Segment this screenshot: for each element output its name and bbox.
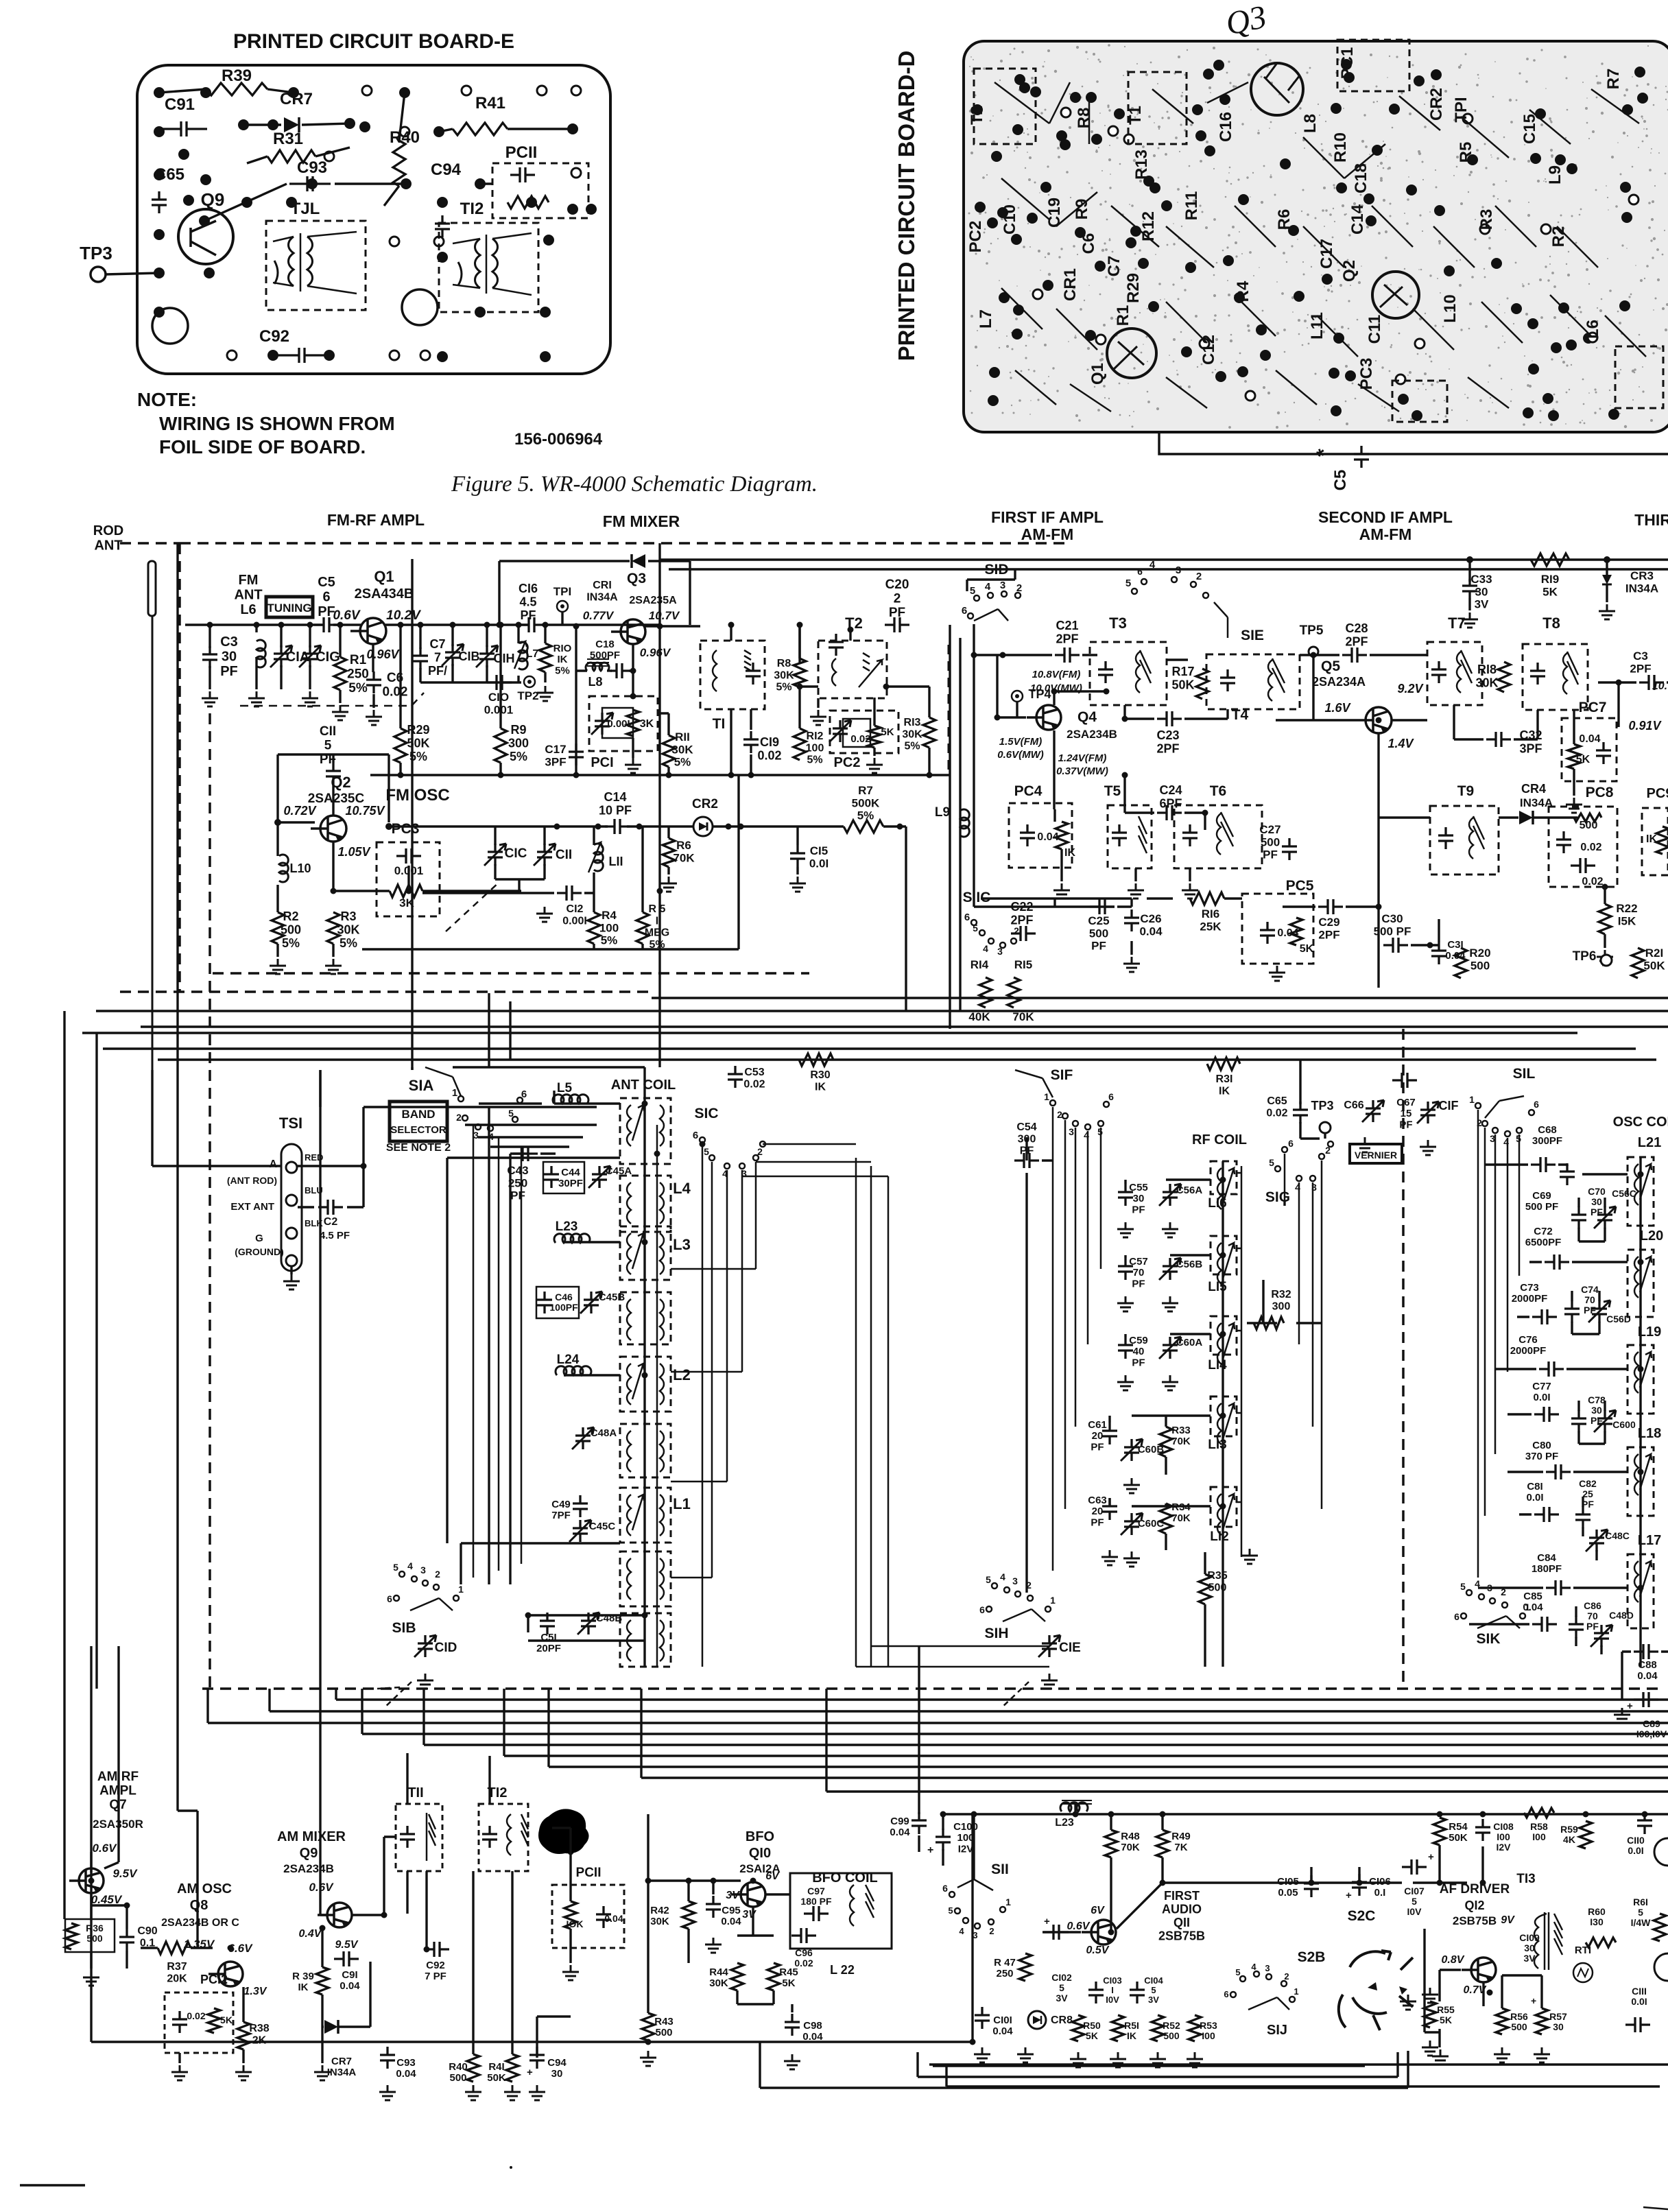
module PC7	[1562, 718, 1617, 781]
svg-text:0.6V: 0.6V	[309, 1881, 335, 1894]
T1 coils	[713, 650, 751, 691]
svg-text:RIOIK5%: RIOIK5%	[553, 643, 572, 676]
pad hole	[1200, 339, 1209, 348]
resistor R6	[663, 838, 675, 867]
svg-text:2: 2	[1014, 925, 1019, 936]
ground	[302, 691, 318, 706]
svg-text:L21: L21	[1638, 1135, 1661, 1150]
TP6 terminal	[1601, 955, 1612, 966]
C46 box	[536, 1287, 579, 1318]
svg-text:1: 1	[1525, 1602, 1530, 1613]
wire	[1468, 560, 1470, 610]
coil L3 upper arrow	[632, 1233, 644, 1269]
cap in PC3	[396, 848, 421, 864]
L11 arrow	[588, 842, 602, 872]
svg-text:NOTE:: NOTE:	[137, 389, 197, 410]
coil L4 lower left	[627, 1182, 631, 1224]
svg-text:CR4: CR4	[1521, 782, 1546, 796]
svg-text:3K: 3K	[399, 896, 414, 909]
wire	[1598, 682, 1668, 727]
svg-text:AM RFAMPLQ7: AM RFAMPLQ7	[97, 1770, 139, 1812]
wire C88	[1622, 1652, 1668, 1700]
capacitor C95	[706, 1896, 721, 1918]
capacitor C30	[1383, 938, 1408, 953]
svg-text:CI64.5PF: CI64.5PF	[519, 582, 538, 622]
board D halftone speckle	[968, 44, 1668, 429]
pad	[1528, 364, 1539, 374]
svg-text:SIG: SIG	[1265, 1189, 1290, 1205]
svg-text:CIG: CIG	[315, 650, 340, 665]
res in PC8	[1574, 813, 1601, 822]
coil L1 upper right	[660, 1495, 664, 1536]
transformer T11	[289, 237, 294, 286]
coil L1 lower box	[620, 1551, 671, 1606]
svg-text:C5I20PF: C5I20PF	[536, 1632, 561, 1654]
capacitor C6	[366, 671, 381, 693]
svg-text:+: +	[1627, 1700, 1633, 1712]
resistor R41	[506, 2054, 519, 2082]
coil L1 upper arrow	[632, 1495, 644, 1530]
ground	[784, 2054, 800, 2069]
cap in PC4	[1020, 824, 1035, 846]
svg-text:R53I00: R53I00	[1200, 2020, 1217, 2041]
pad hole	[1396, 374, 1405, 384]
svg-text:R670K: R670K	[673, 839, 695, 864]
dot mark	[510, 2166, 512, 2169]
bus line	[504, 1689, 1668, 1756]
coil L4 lower box	[620, 1176, 671, 1232]
ground	[1357, 1137, 1373, 1152]
svg-text:4: 4	[407, 1560, 413, 1571]
resistor R1	[334, 657, 346, 690]
pad hole	[420, 350, 430, 360]
pad	[1331, 405, 1342, 416]
wire Q12	[1425, 1845, 1484, 2047]
module PC12	[165, 1993, 233, 2053]
transistor Q10	[741, 1882, 765, 1907]
coil L15 arrow	[1223, 1243, 1235, 1279]
pad	[1555, 154, 1566, 165]
svg-text:0.5V: 0.5V	[1086, 1945, 1110, 1956]
svg-text:0.96V: 0.96V	[640, 646, 671, 659]
pad	[154, 267, 165, 278]
wire	[1454, 705, 1538, 739]
ground	[810, 710, 826, 725]
ground	[1017, 2047, 1034, 2062]
svg-text:C260.04: C260.04	[1139, 912, 1163, 938]
svg-text:3K: 3K	[640, 718, 654, 730]
svg-text:THIR: THIR	[1634, 511, 1668, 529]
capacitor C3	[202, 646, 217, 668]
svg-text:R 5IMEG5%: R 5IMEG5%	[645, 903, 669, 951]
svg-text:6: 6	[521, 1089, 527, 1100]
svg-text:C48A: C48A	[591, 1427, 617, 1439]
wire	[510, 1154, 528, 1584]
capacitor C85	[1532, 1617, 1557, 1632]
svg-text:R1: R1	[1114, 305, 1132, 326]
svg-text:3: 3	[1069, 1126, 1074, 1137]
capacitor C61	[1102, 1423, 1117, 1444]
long buses	[96, 998, 1668, 1027]
pointer CIE	[1001, 1682, 1029, 1708]
ground	[1494, 2047, 1510, 2062]
svg-text:70K: 70K	[1012, 1010, 1034, 1023]
pointer2	[384, 1682, 412, 1708]
coil L23	[554, 1234, 590, 1243]
pad	[154, 229, 165, 240]
svg-text:6: 6	[979, 1604, 985, 1615]
pad	[987, 217, 998, 228]
svg-text:C5: C5	[1331, 470, 1350, 491]
svg-text:T6: T6	[1210, 783, 1227, 799]
SIG verticals	[1285, 1154, 1322, 1509]
svg-text:2SA234B: 2SA234B	[1067, 728, 1117, 741]
coil L0 right	[660, 1620, 664, 1661]
resistor R11	[663, 735, 675, 767]
svg-text:CIE: CIE	[1059, 1641, 1081, 1655]
ground	[248, 691, 265, 706]
pad	[1181, 346, 1192, 357]
svg-text:R3720K: R3720K	[167, 1961, 187, 1984]
coil L21 arrow	[1640, 1164, 1652, 1200]
ground	[1400, 1995, 1416, 2010]
tuner box bottom dashed	[120, 990, 652, 993]
svg-text:L3: L3	[673, 1236, 691, 1253]
svg-text:0.72V: 0.72V	[283, 804, 317, 818]
wire	[91, 1852, 213, 1948]
coil L14 arrow	[1223, 1323, 1235, 1359]
svg-text:C880.04: C880.04	[1637, 1659, 1658, 1682]
capacitor C10	[487, 675, 512, 690]
wire	[439, 129, 573, 132]
cap in T9	[1438, 827, 1453, 849]
variable capacitor C1H	[479, 645, 495, 667]
coil L2 upper left	[627, 1364, 631, 1405]
svg-text:C9I0.04: C9I0.04	[339, 1969, 360, 1992]
wire	[1125, 775, 1205, 830]
svg-text:C14: C14	[1348, 204, 1367, 235]
pad hole	[324, 152, 334, 161]
resistor R59	[1580, 1821, 1592, 1848]
TSI terminal	[286, 1162, 297, 1173]
svg-text:Q9: Q9	[201, 189, 225, 210]
coil L15 left	[1217, 1243, 1222, 1284]
cap in T5	[1112, 824, 1127, 846]
svg-text:+: +	[1428, 1851, 1434, 1863]
svg-text:3V: 3V	[726, 1890, 740, 1901]
coil L1 upper left	[627, 1495, 631, 1536]
FM OSC box bottom dashed	[213, 972, 809, 975]
variable capacitor C48B	[581, 1613, 596, 1634]
wire	[540, 1067, 645, 1154]
variable capacitor CIE	[1042, 1635, 1057, 1657]
svg-text:R1750K: R1750K	[1171, 665, 1194, 691]
svg-text:ANT COIL: ANT COIL	[611, 1078, 676, 1093]
svg-text:6: 6	[693, 1130, 698, 1141]
resistor R55	[1424, 2001, 1436, 2027]
pad	[1219, 94, 1230, 105]
svg-text:CRIIN34A: CRIIN34A	[586, 580, 618, 603]
capacitor C12	[557, 885, 582, 901]
wire	[1499, 816, 1577, 818]
module PC11	[492, 163, 588, 218]
coil L23	[1060, 1803, 1088, 1811]
svg-text:Q5: Q5	[1321, 658, 1340, 674]
SIB contacts	[394, 1571, 459, 1601]
svg-text:LII: LII	[609, 855, 623, 868]
pad	[437, 351, 448, 362]
capacitor C63	[1102, 1498, 1117, 1520]
L23 core	[1062, 1800, 1092, 1804]
svg-text:3V: 3V	[742, 1909, 756, 1920]
transistor Q12	[1471, 1958, 1496, 1982]
resistor R10	[539, 643, 551, 672]
capacitor C102	[1044, 1925, 1069, 1940]
ground	[1149, 2052, 1166, 2067]
svg-text:FIRST IF AMPLAM-FM: FIRST IF AMPLAM-FM	[991, 508, 1104, 543]
pad	[1019, 82, 1030, 93]
svg-text:L1: L1	[673, 1495, 691, 1512]
svg-text:5: 5	[1235, 1967, 1240, 1977]
nested loop outer	[760, 2043, 1408, 2088]
SIJ wiper	[1248, 1997, 1289, 2010]
res in PC12	[208, 2008, 220, 2033]
coil L3 lower left	[627, 1299, 631, 1340]
svg-text:R2950K5%: R2950K5%	[407, 723, 429, 763]
TP3 terminal	[91, 267, 106, 282]
pad	[1095, 261, 1106, 272]
coil L2 lower left	[627, 1431, 631, 1472]
svg-text:IK: IK	[1064, 847, 1075, 859]
svg-text:C960.02: C960.02	[794, 1947, 813, 1969]
resistor R49	[1156, 1830, 1169, 1857]
svg-text:CI03II0V: CI03II0V	[1103, 1975, 1121, 2005]
svg-text:L6: L6	[1584, 320, 1602, 339]
pad	[1143, 176, 1154, 187]
svg-text:CIA: CIA	[286, 650, 309, 665]
resistor R36	[65, 1923, 78, 1949]
svg-text:SIK: SIK	[1476, 1631, 1500, 1647]
svg-text:5: 5	[1269, 1157, 1274, 1168]
TSI outline	[281, 1144, 302, 1271]
svg-text:LI4: LI4	[1208, 1358, 1227, 1372]
ground	[83, 1971, 99, 1986]
module PC8	[1549, 807, 1617, 887]
wire	[159, 89, 294, 93]
pad hole	[1124, 134, 1134, 144]
svg-text:PC7: PC7	[1579, 700, 1607, 715]
wire	[210, 625, 257, 689]
svg-text:C56D: C56D	[1606, 1313, 1631, 1324]
ground	[1432, 2049, 1449, 2065]
pad	[1331, 103, 1342, 114]
pad hole	[1246, 391, 1255, 401]
wire R13	[800, 687, 929, 775]
pad	[359, 121, 370, 132]
variable capacitor C48A	[575, 1427, 591, 1449]
svg-text:T5: T5	[1104, 783, 1121, 799]
dashed rail right	[1402, 1029, 1405, 1689]
ground	[562, 1965, 579, 1980]
resistor R31	[267, 150, 315, 163]
coil L2 upper right	[660, 1364, 664, 1405]
svg-text:L5: L5	[557, 1081, 573, 1095]
svg-text:R 39IK: R 39IK	[292, 1971, 314, 1993]
transformer T7	[1427, 642, 1482, 705]
capacitor C110	[1637, 1812, 1652, 1834]
transformer T3	[1090, 642, 1167, 705]
svg-text:CII00.0I: CII00.0I	[1627, 1835, 1645, 1856]
resistor R21	[1632, 948, 1644, 978]
capacitor C44	[544, 1166, 559, 1188]
SIA contacts	[458, 1096, 523, 1131]
L6 box	[1615, 346, 1663, 408]
pad	[475, 307, 486, 318]
svg-text:9.2V: 9.2V	[1397, 682, 1424, 695]
svg-text:0.6V(MW): 0.6V(MW)	[997, 749, 1044, 761]
svg-text:R40500: R40500	[449, 2061, 468, 2084]
svg-text:6: 6	[1224, 1989, 1228, 1999]
pad	[1086, 92, 1097, 103]
cap in PC1	[595, 713, 610, 735]
wire	[1283, 809, 1439, 988]
pad	[1637, 93, 1648, 104]
transistor Q11	[1091, 1920, 1116, 1945]
capacitor C5	[314, 617, 339, 632]
res in PC9	[1656, 826, 1668, 854]
ground	[417, 1674, 433, 1689]
capacitor C108	[1475, 1819, 1490, 1841]
wire BFO	[648, 1881, 790, 1894]
transformer T1	[700, 641, 765, 709]
svg-text:C69500 PF: C69500 PF	[1525, 1190, 1558, 1213]
cap in T6	[1182, 824, 1198, 846]
svg-text:VERNIER: VERNIER	[1355, 1150, 1397, 1161]
svg-text:PRINTED CIRCUIT BOARD-D: PRINTED CIRCUIT BOARD-D	[894, 51, 919, 361]
svg-text:C530.02: C530.02	[743, 1067, 765, 1090]
svg-text:2: 2	[1196, 571, 1202, 582]
pad	[1608, 409, 1619, 420]
svg-text:R830K5%: R830K5%	[774, 658, 794, 693]
pad	[1091, 134, 1102, 145]
rod antenna	[148, 561, 156, 616]
svg-text:PCII: PCII	[505, 143, 538, 162]
coil L19 left	[1634, 1352, 1639, 1393]
coil L12 arrow	[1223, 1494, 1235, 1530]
svg-text:CII: CII	[556, 848, 572, 862]
resistor R20	[1455, 948, 1467, 978]
pad	[1204, 145, 1215, 156]
svg-text:C45B: C45B	[599, 1292, 625, 1303]
pad	[567, 123, 578, 134]
variable capacitor C60A	[1163, 1337, 1178, 1359]
pad	[178, 149, 189, 160]
capacitor C67	[1392, 1073, 1417, 1088]
svg-text:5: 5	[1460, 1581, 1466, 1592]
pointer	[377, 1687, 400, 1689]
svg-text:RII30K5%: RII30K5%	[671, 730, 693, 769]
wire TP3	[1300, 1060, 1325, 1139]
svg-text:C56C: C56C	[1612, 1188, 1636, 1199]
T3 coil	[1136, 650, 1151, 693]
svg-text:4.5 PF: 4.5 PF	[320, 1230, 350, 1241]
svg-text:CI08I00I2V: CI08I00I2V	[1493, 1821, 1514, 1853]
ground	[1123, 1551, 1140, 1567]
pad	[972, 104, 983, 115]
pad	[1213, 60, 1224, 71]
svg-text:R41005%: R41005%	[599, 909, 619, 947]
resistor R37	[158, 1942, 191, 1954]
pad	[1527, 318, 1538, 329]
pad	[1621, 212, 1632, 223]
audio top bus	[919, 1814, 1668, 1866]
pad	[1148, 301, 1159, 312]
BFO coil box	[790, 1873, 892, 1949]
TP4 terminal	[1012, 691, 1023, 702]
capacitor C2	[318, 1200, 343, 1215]
pad	[1551, 342, 1562, 353]
svg-text:5K: 5K	[881, 726, 894, 738]
capacitor C105	[1304, 1875, 1319, 1897]
cap in T11	[400, 1826, 415, 1848]
pad	[1336, 182, 1347, 193]
ground	[1241, 1549, 1258, 1564]
resistor R41	[453, 123, 508, 135]
resistor R32	[1254, 1317, 1284, 1329]
coil L8	[586, 663, 609, 671]
wires osc left	[1469, 1165, 1567, 1624]
wire	[243, 123, 350, 125]
SIB vertical	[447, 1158, 461, 1584]
svg-text:SIJ: SIJ	[1267, 2023, 1287, 2038]
wire	[1285, 1060, 1300, 1206]
pad	[1238, 194, 1249, 205]
SIC elbows	[671, 1269, 756, 1578]
svg-text:BAND: BAND	[401, 1108, 435, 1121]
wire mid	[1163, 1867, 1440, 1883]
capacitor C21	[1055, 647, 1080, 663]
SIE contacts	[1132, 577, 1208, 598]
svg-text:TP5: TP5	[1300, 623, 1324, 638]
svg-text:CIII0.0I: CIII0.0I	[1631, 1986, 1647, 2007]
pad	[1185, 262, 1196, 273]
ground	[325, 959, 342, 974]
variable capacitor C60D	[1597, 1410, 1612, 1432]
svg-text:C6715PF: C6715PF	[1396, 1097, 1416, 1130]
wire	[1166, 656, 1430, 818]
resistor R14	[979, 977, 992, 1008]
ground	[314, 2065, 331, 2080]
wire	[340, 644, 374, 708]
svg-text:C5530PF: C5530PF	[1129, 1182, 1148, 1215]
pad	[1322, 274, 1333, 285]
svg-text:0.4V: 0.4V	[299, 1928, 322, 1940]
svg-text:4: 4	[1251, 1962, 1256, 1972]
svg-text:CI50.0I: CI50.0I	[809, 844, 829, 870]
res in PC1	[627, 710, 639, 736]
ground	[235, 2065, 252, 2080]
capacitor C15	[790, 845, 805, 867]
svg-text:1: 1	[1050, 1595, 1056, 1606]
board E outline	[137, 65, 610, 374]
ground	[1162, 1375, 1178, 1390]
coil L4 upper left	[627, 1105, 631, 1146]
wire Q7	[91, 1894, 127, 1969]
transformer T12	[475, 239, 481, 288]
svg-text:CI0253V: CI0253V	[1051, 1972, 1072, 2003]
pad	[1558, 302, 1569, 313]
left feed rails	[64, 1011, 198, 1948]
